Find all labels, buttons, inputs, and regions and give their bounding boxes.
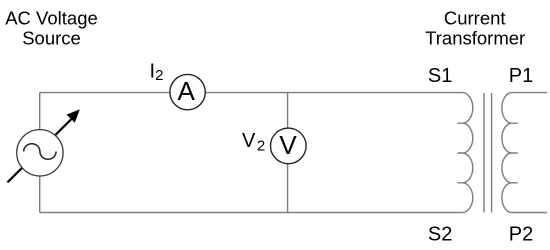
svg-text:S1: S1	[428, 65, 452, 87]
svg-text:P1: P1	[509, 65, 533, 87]
svg-text:Source: Source	[22, 28, 81, 49]
svg-text:Transformer: Transformer	[425, 28, 525, 49]
svg-text:S2: S2	[428, 224, 452, 246]
svg-text:P2: P2	[509, 224, 533, 246]
svg-text:AC Voltage: AC Voltage	[5, 8, 98, 29]
svg-text:V: V	[279, 130, 297, 160]
svg-text:A: A	[178, 76, 196, 106]
svg-text:Current: Current	[444, 8, 506, 29]
